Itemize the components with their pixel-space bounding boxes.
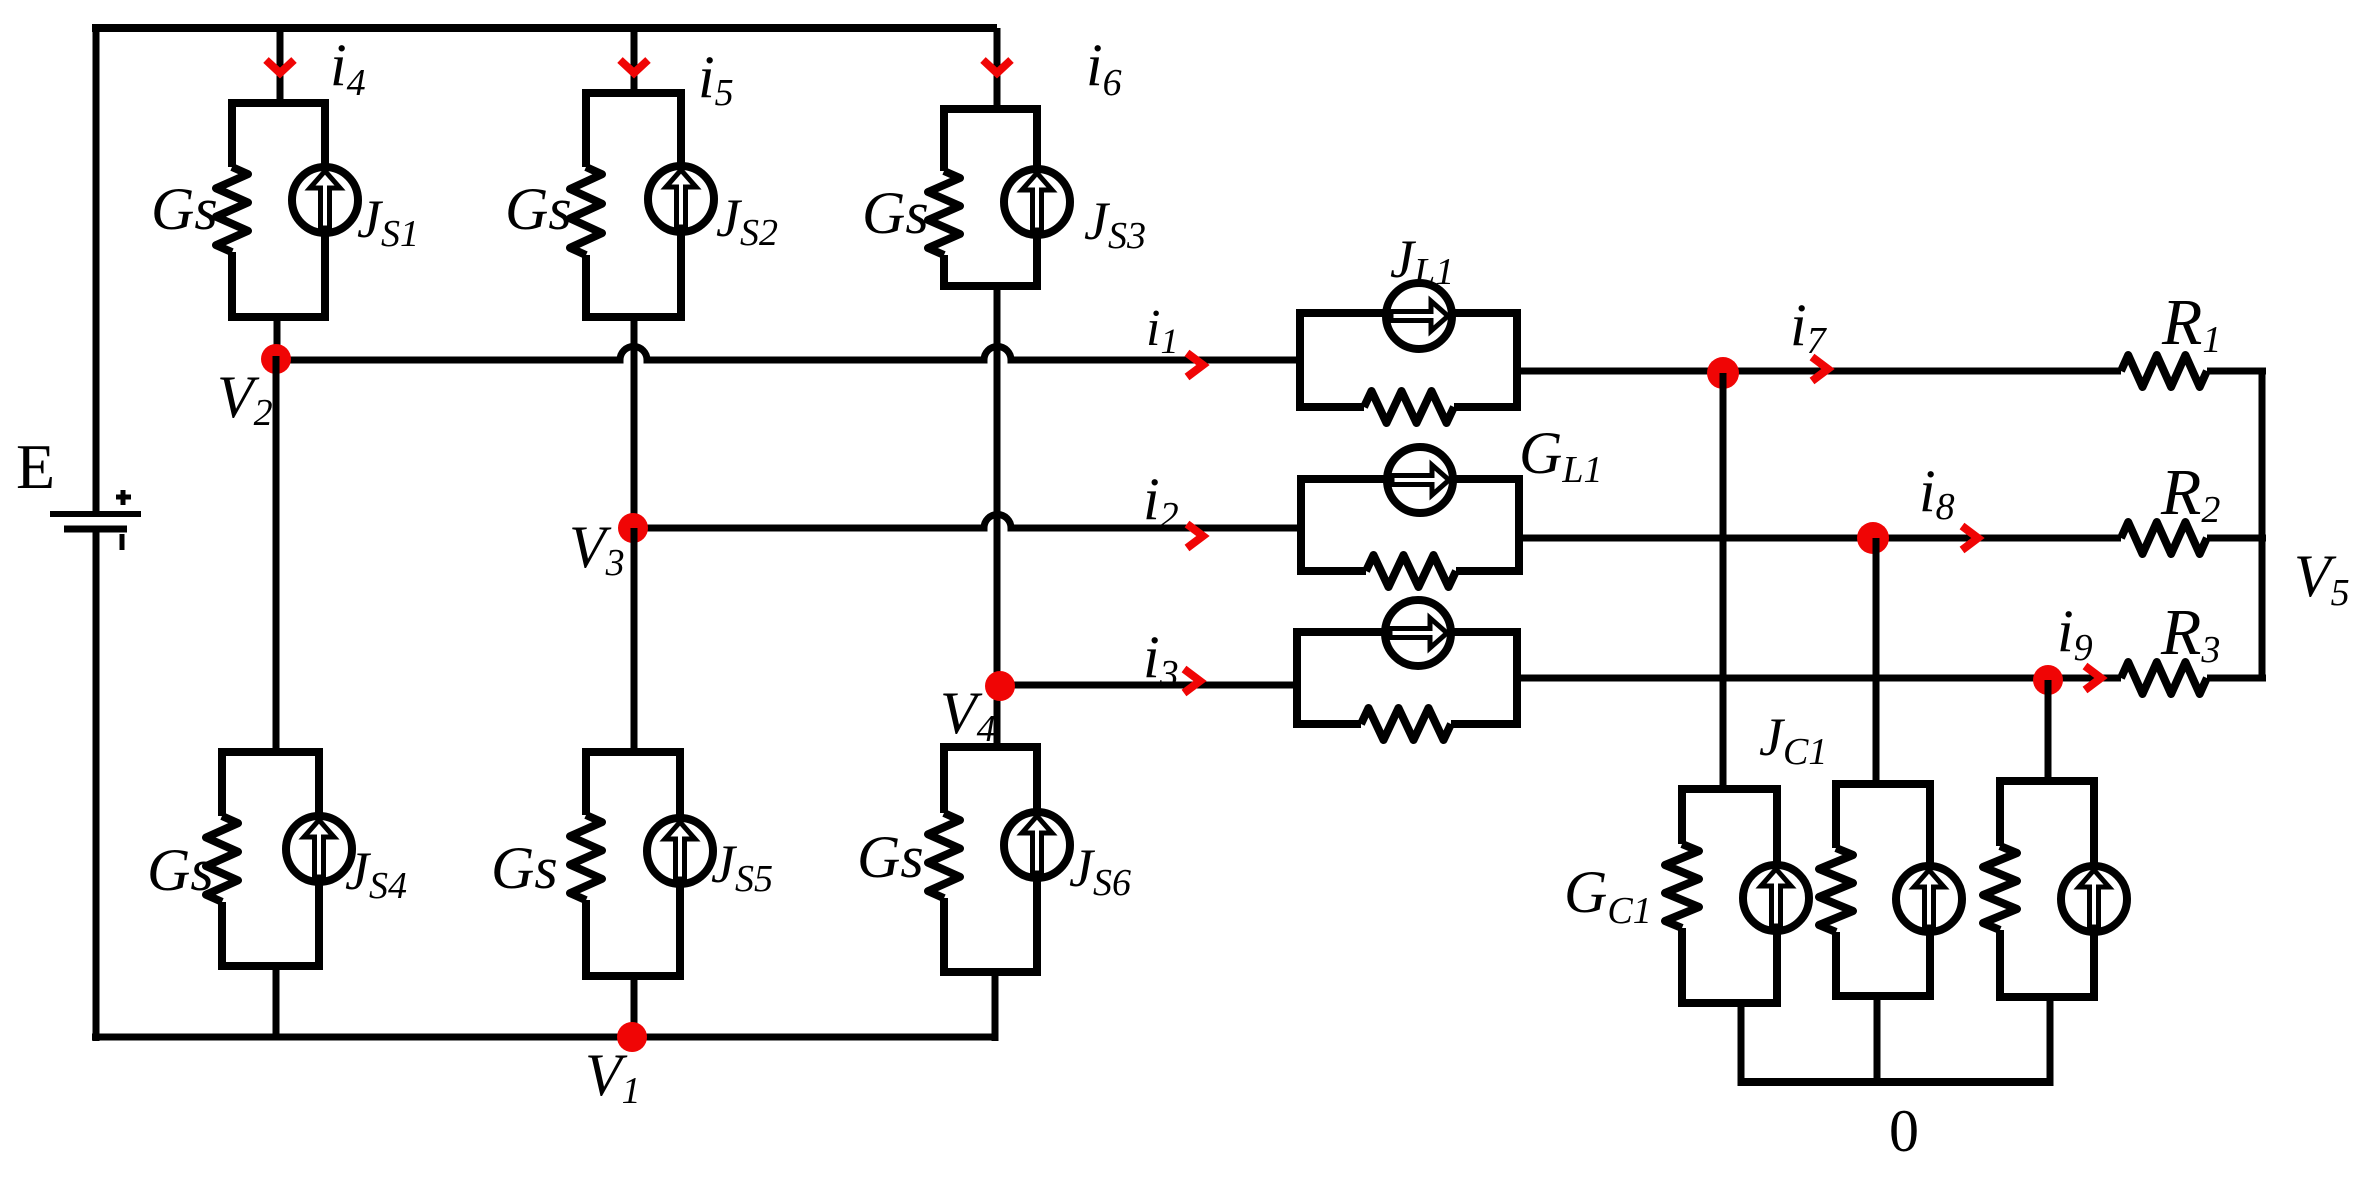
wire node i8 down to box C2 <box>1873 538 1880 784</box>
current arrow i8 <box>1962 526 1978 550</box>
wire box S3 through V4 down <box>994 286 1001 747</box>
wire C from V4 to load box L3 <box>1000 682 1297 689</box>
current arrow i4 <box>266 60 294 73</box>
current arrow i3 <box>1184 669 1200 693</box>
svg-text:GC1: GC1 <box>1564 859 1652 932</box>
svg-text:i3: i3 <box>1143 624 1179 695</box>
svg-text:i2: i2 <box>1143 466 1179 537</box>
svg-text:V5: V5 <box>2294 543 2350 614</box>
node i8 junction <box>1857 522 1889 554</box>
wire left vertical below battery <box>93 530 100 1041</box>
node V2 <box>261 344 291 374</box>
svg-text:i7: i7 <box>1790 292 1828 362</box>
current source JS6 <box>1004 812 1070 878</box>
current arrow i2 <box>1187 524 1203 548</box>
svg-text:JS3: JS3 <box>1084 191 1146 257</box>
current arrow i1 <box>1187 353 1203 377</box>
wire box C2 to ground bus <box>1874 996 1881 1086</box>
svg-text:JL1: JL1 <box>1390 229 1454 293</box>
current source JS2 <box>648 166 714 232</box>
node i9 junction <box>2033 665 2063 695</box>
wire R3 to right vertical <box>2207 675 2266 682</box>
svg-text:E: E <box>16 431 55 502</box>
svg-text:Gs: Gs <box>862 180 929 246</box>
voltage source E battery plates <box>50 514 141 529</box>
node V1 <box>617 1022 647 1052</box>
svg-text:i6: i6 <box>1086 32 1122 104</box>
wire box C3 to ground bus <box>2047 997 2054 1086</box>
current source JS1 <box>292 167 358 233</box>
svg-text:JS6: JS6 <box>1069 838 1131 904</box>
current source JL2 <box>1387 447 1453 513</box>
wire box S5 to bottom rail <box>631 976 638 1037</box>
source box S5 outline <box>586 752 680 976</box>
wire L2 output to R2 <box>1519 535 2121 542</box>
current source (box C3) <box>2061 866 2127 932</box>
wire B from V3 to load box L2 (hop over branch 3) <box>633 515 1301 529</box>
wire node i9 down to box C3 <box>2045 680 2052 781</box>
svg-text:Gs: Gs <box>857 824 924 890</box>
svg-text:0: 0 <box>1889 1098 1919 1164</box>
wire branch-1 top stub <box>277 28 284 103</box>
current source JL3 <box>1385 600 1451 666</box>
node i7 junction <box>1707 357 1739 389</box>
current source JS3 <box>1004 169 1070 235</box>
current source JS4 <box>286 816 352 882</box>
svg-text:V1: V1 <box>585 1042 641 1112</box>
svg-text:V2: V2 <box>217 364 273 434</box>
source box S1 outline <box>232 103 325 317</box>
load box L2 outline <box>1301 479 1519 571</box>
battery - polarity mark <box>120 534 125 550</box>
svg-text:i1: i1 <box>1146 300 1178 361</box>
wire V2 down to box S4 <box>273 356 280 752</box>
wire L1 output to R1 <box>1517 368 2121 375</box>
resistor (load box L2) <box>1366 555 1456 587</box>
svg-text:Gs: Gs <box>147 837 214 903</box>
current source JS5 <box>647 818 713 884</box>
resistor R2 <box>2121 522 2207 554</box>
load box L3 outline <box>1297 632 1517 724</box>
current arrow i9 <box>2085 666 2101 690</box>
node V3 <box>618 513 648 543</box>
source box S6 outline <box>944 747 1037 972</box>
node V4 <box>985 671 1015 701</box>
wire L3 output to R3 <box>1517 675 2121 682</box>
wire branch-2 top stub <box>631 28 638 93</box>
source box S3 outline <box>944 109 1037 286</box>
wire top rail <box>92 24 997 32</box>
wire left vertical (E branch) <box>93 24 100 513</box>
source box S2 outline <box>586 93 681 317</box>
svg-text:i4: i4 <box>330 32 366 104</box>
svg-text:i8: i8 <box>1919 458 1955 528</box>
svg-text:R3: R3 <box>2160 596 2220 671</box>
resistor Gs (branch 1 bottom) <box>206 816 238 902</box>
current arrow i7 <box>1812 357 1828 381</box>
resistor Gs (branch 3 bottom) <box>928 813 960 898</box>
resistor (box C2) <box>1819 848 1853 932</box>
load box C1 outline <box>1682 789 1777 1003</box>
svg-text:JC1: JC1 <box>1759 707 1827 773</box>
wire V3 down to box S5 <box>631 528 638 752</box>
wire R1 to right vertical <box>2207 368 2266 375</box>
current source JC1 (box C1) <box>1743 865 1809 931</box>
current arrow i5 <box>620 60 648 73</box>
svg-text:V3: V3 <box>569 514 625 584</box>
load box L1 outline <box>1300 313 1517 407</box>
svg-text:JS2: JS2 <box>716 188 778 254</box>
wire branch-3 top stub <box>994 28 1001 109</box>
svg-text:Gs: Gs <box>151 176 218 242</box>
svg-text:Gs: Gs <box>505 176 572 242</box>
resistor (box C3) <box>1983 846 2017 930</box>
wire A from V2 to load box L1 (hops over branches 2,3) <box>276 347 1300 361</box>
wire right vertical V5 bus <box>2259 371 2266 678</box>
svg-text:R1: R1 <box>2161 286 2221 361</box>
current source JL1 <box>1386 283 1452 349</box>
current arrow i6 <box>983 60 1011 73</box>
svg-text:JS4: JS4 <box>345 841 407 907</box>
wire bottom rail <box>92 1034 995 1041</box>
wire box S2 to node V3 <box>631 317 638 532</box>
resistor Gs (branch 2 top) <box>570 167 602 255</box>
load box C2 outline <box>1836 784 1930 996</box>
resistor Gs (branch 3 top) <box>928 171 960 255</box>
svg-text:R2: R2 <box>2160 456 2220 531</box>
source box S4 outline <box>222 752 319 966</box>
wire box C1 to ground bus <box>1738 1003 1745 1086</box>
resistor GC1 (box C1) <box>1665 844 1699 928</box>
battery + polarity mark <box>116 490 131 505</box>
resistor R3 <box>2121 662 2207 694</box>
wire box S6 to bottom rail <box>992 972 999 1041</box>
svg-text:i9: i9 <box>2057 598 2093 669</box>
wire R2 to right vertical <box>2207 535 2266 542</box>
resistor Gs (branch 2 bottom) <box>570 815 602 900</box>
svg-text:i5: i5 <box>698 44 734 114</box>
load box C3 outline <box>2000 781 2094 997</box>
resistor GL1 (load box L1) <box>1364 391 1454 423</box>
svg-text:JS5: JS5 <box>711 834 773 900</box>
resistor (load box L3) <box>1361 708 1451 740</box>
svg-text:GL1: GL1 <box>1519 420 1602 491</box>
resistor Gs (branch 1 top) <box>216 167 248 252</box>
current source (box C2) <box>1896 866 1962 932</box>
svg-text:JS1: JS1 <box>357 189 419 255</box>
wire box S1 to node V2 <box>274 317 281 363</box>
wire box S4 to bottom rail <box>273 966 280 1037</box>
wire ground bus <box>1741 1078 2050 1086</box>
svg-text:Gs: Gs <box>491 835 558 901</box>
resistor R1 <box>2121 355 2207 387</box>
wire node i7 down to box C1 <box>1720 373 1727 789</box>
